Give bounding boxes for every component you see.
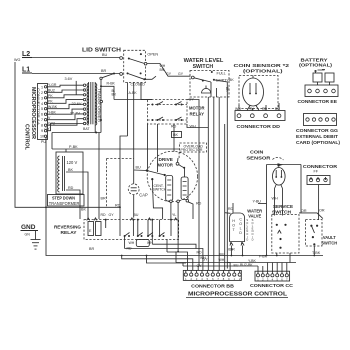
svg-text:4: 4 <box>41 102 43 106</box>
svg-text:OR: OR <box>230 247 236 251</box>
svg-text:CONNECTOR CC: CONNECTOR CC <box>250 283 294 288</box>
svg-text:CONNECTOR: CONNECTOR <box>303 164 337 169</box>
svg-text:CONNECTOR DD: CONNECTOR DD <box>237 124 281 129</box>
svg-text:Y-BK: Y-BK <box>48 110 57 114</box>
svg-text:MOTOR: MOTOR <box>189 106 205 111</box>
svg-text:L1: L1 <box>22 67 30 74</box>
svg-text:120 V: 120 V <box>67 160 78 165</box>
svg-text:CONNECTOR BB: CONNECTOR BB <box>191 283 234 288</box>
svg-text:BN: BN <box>160 68 165 72</box>
svg-text:3.6V: 3.6V <box>65 77 73 81</box>
svg-text:CONNECTOR AA: CONNECTOR AA <box>36 88 40 126</box>
svg-text:7: 7 <box>41 118 43 122</box>
svg-text:GY: GY <box>197 264 203 268</box>
svg-text:BK: BK <box>173 133 178 137</box>
svg-text:RD: RD <box>101 213 107 217</box>
svg-text:BU: BU <box>102 53 107 57</box>
svg-text:L2: L2 <box>22 51 30 58</box>
svg-text:10: 10 <box>40 135 44 139</box>
svg-text:FULL: FULL <box>217 72 226 76</box>
svg-text:CONNECTOR GG: CONNECTOR GG <box>296 128 338 133</box>
svg-text:BU: BU <box>136 166 141 170</box>
svg-text:BU: BU <box>134 213 139 217</box>
svg-text:CARD (OPTIONAL): CARD (OPTIONAL) <box>296 140 341 145</box>
svg-text:6: 6 <box>41 113 43 117</box>
svg-text:BK: BK <box>81 208 86 212</box>
svg-text:RD: RD <box>228 207 234 211</box>
svg-text:FF: FF <box>314 169 319 173</box>
svg-text:RD: RD <box>197 251 203 255</box>
svg-text:W-BK: W-BK <box>48 105 58 109</box>
svg-text:SOLENOID: SOLENOID <box>251 218 253 242</box>
svg-text:GY2: GY2 <box>48 121 55 125</box>
svg-text:20.7V: 20.7V <box>70 112 80 116</box>
svg-text:EXTERNAL DEBIT: EXTERNAL DEBIT <box>296 134 339 139</box>
svg-text:1: 1 <box>41 85 43 89</box>
svg-text:OR: OR <box>319 209 325 213</box>
svg-text:GY: GY <box>45 127 51 131</box>
svg-text:A-BK: A-BK <box>129 91 138 95</box>
svg-text:CONTROL: CONTROL <box>24 124 30 150</box>
svg-text:BK: BK <box>68 168 73 172</box>
svg-text:GND: GND <box>21 224 36 231</box>
svg-text:BK: BK <box>229 78 234 82</box>
svg-text:PROTECTOR: PROTECTOR <box>181 148 203 152</box>
svg-text:GY: GY <box>109 213 115 217</box>
svg-text:SOLENOID: SOLENOID <box>246 218 248 242</box>
svg-text:CONNECTOR EE: CONNECTOR EE <box>298 99 338 104</box>
svg-text:RD: RD <box>68 186 74 190</box>
svg-text:BAT: BAT <box>83 127 90 131</box>
svg-text:SENSOR: SENSOR <box>246 155 270 160</box>
svg-text:GY: GY <box>166 72 172 76</box>
svg-text:VAULT: VAULT <box>323 235 336 240</box>
svg-text:BR: BR <box>101 197 106 201</box>
svg-text:(OPTIONAL): (OPTIONAL) <box>299 63 333 68</box>
svg-text:BU: BU <box>220 253 225 257</box>
svg-text:SWITCH: SWITCH <box>272 210 291 215</box>
svg-text:WH: WH <box>200 256 206 260</box>
svg-text:PK: PK <box>48 94 53 98</box>
svg-text:MICROPROCESSOR: MICROPROCESSOR <box>30 87 36 139</box>
svg-text:RELAY: RELAY <box>190 112 205 117</box>
svg-text:BR: BR <box>89 247 94 251</box>
svg-text:BK: BK <box>225 87 229 92</box>
svg-text:YL: YL <box>172 213 176 217</box>
svg-text:COIN: COIN <box>250 150 263 155</box>
svg-text:(OPTIONAL): (OPTIONAL) <box>243 68 283 73</box>
svg-text:R-BK: R-BK <box>107 82 116 86</box>
svg-text:22.6V: 22.6V <box>72 102 82 106</box>
svg-text:Y-GR: Y-GR <box>48 83 57 87</box>
svg-text:8: 8 <box>41 124 43 128</box>
svg-text:PK: PK <box>48 100 53 104</box>
svg-text:OR: OR <box>301 209 307 213</box>
svg-text:T-BK: T-BK <box>312 251 321 255</box>
svg-text:SWITCH: SWITCH <box>153 188 167 192</box>
svg-text:SWITCH: SWITCH <box>321 240 337 245</box>
svg-text:P-BK: P-BK <box>69 145 78 149</box>
svg-text:WG: WG <box>14 58 20 62</box>
svg-text:3: 3 <box>41 96 43 100</box>
svg-text:MOTOR: MOTOR <box>158 163 174 168</box>
svg-text:OPEN: OPEN <box>147 52 158 56</box>
svg-text:BR: BR <box>101 69 106 73</box>
svg-text:COIN SENSOR *2: COIN SENSOR *2 <box>234 63 291 68</box>
svg-text:9: 9 <box>41 129 43 133</box>
svg-text:CAP: CAP <box>139 192 148 197</box>
svg-text:WH: WH <box>272 197 278 201</box>
svg-text:TRANSFORMER: TRANSFORMER <box>49 201 80 206</box>
svg-text:WH: WH <box>129 241 135 245</box>
svg-text:VALVE: VALVE <box>248 213 261 218</box>
svg-text:PU: PU <box>41 140 46 144</box>
svg-text:BU2-BK: BU2-BK <box>240 263 253 267</box>
svg-text:CLOSED: CLOSED <box>131 83 146 87</box>
svg-text:Y-BU: Y-BU <box>253 200 262 204</box>
svg-text:RELAY: RELAY <box>61 230 77 235</box>
svg-text:RD: RD <box>196 202 202 206</box>
svg-text:TRANSFORMER: TRANSFORMER <box>97 88 101 123</box>
svg-text:Y-BK: Y-BK <box>248 259 257 263</box>
svg-text:BK: BK <box>112 93 117 97</box>
svg-text:BU2: BU2 <box>48 89 55 93</box>
svg-text:5: 5 <box>41 107 43 111</box>
svg-text:STEP DOWN: STEP DOWN <box>52 196 75 201</box>
svg-text:SERVICE: SERVICE <box>273 204 293 209</box>
svg-text:REVERSING: REVERSING <box>54 225 81 230</box>
svg-text:WH: WH <box>219 258 225 262</box>
svg-text:GN: GN <box>25 233 31 237</box>
svg-text:GY: GY <box>178 72 184 76</box>
svg-text:LID SWITCH: LID SWITCH <box>82 48 122 54</box>
svg-text:2: 2 <box>41 91 43 95</box>
svg-text:BU: BU <box>234 264 239 268</box>
svg-text:DRIVE: DRIVE <box>159 157 173 162</box>
svg-text:MICROPROCESSOR CONTROL: MICROPROCESSOR CONTROL <box>188 292 287 298</box>
svg-text:SWITCH: SWITCH <box>193 64 214 70</box>
